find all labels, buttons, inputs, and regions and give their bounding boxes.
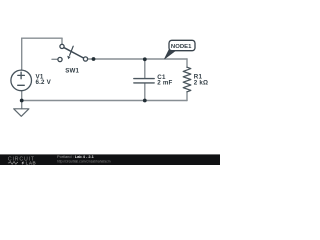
wire V1 bottom to ground xyxy=(21,91,23,109)
wire R1 top stub xyxy=(186,59,188,67)
svg-text:SW1: SW1 xyxy=(65,67,79,74)
wire C1 top stub xyxy=(144,59,146,78)
voltage source V1 xyxy=(11,70,32,91)
svg-text:NODE1: NODE1 xyxy=(171,44,192,50)
wire top-right rail xyxy=(88,58,187,60)
CircuitLab logo zigzag xyxy=(8,162,18,165)
wire R1 bottom stub xyxy=(186,92,188,101)
wire switch unconnected stub xyxy=(52,58,58,60)
CircuitLab logo bolt xyxy=(21,161,24,165)
svg-text:LAB: LAB xyxy=(26,161,37,165)
junction dot C1 top xyxy=(143,57,147,61)
svg-text:2 mF: 2 mF xyxy=(157,80,172,87)
capacitor C1 plates xyxy=(134,79,154,83)
ground xyxy=(14,109,29,117)
node NODE1 callout tail xyxy=(165,50,176,59)
wire C1 bottom stub xyxy=(144,83,146,100)
svg-text:Portland : Lab 4 - 2.1: Portland : Lab 4 - 2.1 xyxy=(57,154,95,159)
svg-text:2 kΩ: 2 kΩ xyxy=(194,80,208,87)
resistor R1 zigzag xyxy=(183,67,191,92)
node NODE1 callout box xyxy=(169,40,195,50)
junction dot switch common xyxy=(92,57,96,61)
switch SW1 xyxy=(58,44,88,61)
wire left vertical to V1 top xyxy=(21,38,23,70)
wire top-left horizontal xyxy=(22,37,62,39)
wire down to switch throw A xyxy=(61,38,63,44)
svg-text:http://circuitlab.com/c/nsabha: http://circuitlab.com/c/nsabhahafacm xyxy=(57,159,111,163)
junction dot C1 bottom xyxy=(143,99,147,103)
junction dot V1/ground node xyxy=(20,99,24,103)
svg-text:6.2 V: 6.2 V xyxy=(36,79,52,86)
wire bottom rail xyxy=(22,100,187,102)
footer black bar xyxy=(0,154,220,165)
switch arrow head xyxy=(67,56,70,60)
